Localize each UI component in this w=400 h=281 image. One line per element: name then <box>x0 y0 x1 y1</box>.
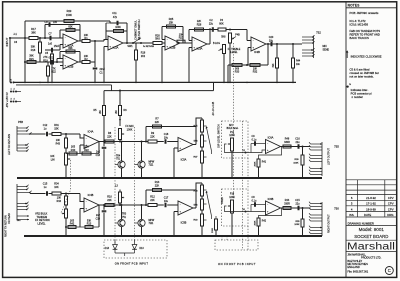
capacitor C8b 0.1u <box>251 204 266 206</box>
wire IC4A output <box>99 141 148 143</box>
resistor R11 22K feedback <box>146 189 196 191</box>
svg-text:CPV: CPV <box>388 202 394 206</box>
svg-text:7111: 7111 <box>149 165 154 167</box>
svg-text:IC5B: IC5B <box>181 221 187 225</box>
svg-text:7111: 7111 <box>149 223 154 225</box>
svg-text:R21: R21 <box>29 58 34 61</box>
wire diode link <box>115 252 135 254</box>
resistor R43b 330R <box>283 207 291 210</box>
svg-text:TANDEM: TANDEM <box>37 215 48 219</box>
svg-text:-: - <box>267 203 268 207</box>
svg-text:22nF: 22nF <box>100 68 106 71</box>
resistor R31 15K <box>49 133 53 135</box>
svg-text:200K: 200K <box>254 220 256 225</box>
resistor R17 38K <box>29 37 38 40</box>
resistor R33 3K9 <box>228 64 268 66</box>
resistor R22 27K <box>47 66 50 76</box>
tandem link dashed <box>61 160 71 213</box>
resistor R28 12K feedback <box>189 29 210 31</box>
svg-text:PCB: JMP39C onwards: PCB: JMP39C onwards <box>350 11 380 15</box>
front pcb dashed box left <box>104 240 167 258</box>
svg-text:15K: 15K <box>169 22 174 25</box>
svg-text:not on later models.: not on later models. <box>350 75 374 79</box>
svg-text:-: - <box>65 57 66 61</box>
resistor R24 100K feedback <box>106 30 127 32</box>
pot P4A B LOG <box>223 45 226 54</box>
svg-text:ON FRONT PCB INPUT: ON FRONT PCB INPUT <box>218 262 256 266</box>
op-amp IC3A <box>192 37 207 51</box>
svg-text:DRN.: DRN. <box>387 213 394 217</box>
svg-text:R27: R27 <box>179 36 184 39</box>
op-amp IC1A <box>63 34 78 48</box>
svg-text:47p: 47p <box>113 16 118 19</box>
resistor R30 39K <box>276 58 279 68</box>
svg-text:732: 732 <box>316 31 321 35</box>
resistor R25 15K feedback <box>162 26 183 28</box>
svg-text:R22: R22 <box>84 149 89 152</box>
wire to IC3B <box>226 29 247 31</box>
svg-text:735: 735 <box>334 145 339 149</box>
pot P5A fx mix <box>119 129 122 140</box>
resistor R5 2M <box>103 91 105 106</box>
svg-text:RIGHT OUTPUT: RIGHT OUTPUT <box>328 214 331 233</box>
op-amp IC6B <box>266 201 281 215</box>
svg-text:C: C <box>388 268 391 273</box>
op-amp IC5B <box>178 201 193 215</box>
switch SW2B arrow <box>204 189 207 191</box>
capacitor C15 1u <box>46 191 48 196</box>
wire R31 to IC4A <box>61 133 80 135</box>
svg-text:Model: 9001: Model: 9001 <box>359 227 385 232</box>
svg-text:O/P LEVEL SWITCH: O/P LEVEL SWITCH <box>217 124 221 148</box>
svg-text:IC2A: IC2A <box>113 45 119 49</box>
svg-text:Indicates inter-: Indicates inter- <box>351 88 369 92</box>
output level attenuator left <box>196 118 202 145</box>
op-amp IC2B <box>162 42 165 44</box>
op-amp IC5A <box>178 138 193 152</box>
svg-text:82K: 82K <box>68 25 73 28</box>
resistor R55 100K <box>302 208 304 219</box>
wire input to R17 <box>10 37 29 39</box>
svg-text:File: 9001SKT.001: File: 9001SKT.001 <box>347 270 368 274</box>
svg-text:17-1-92: 17-1-92 <box>366 202 376 206</box>
svg-text:LEFT FX RETURN: LEFT FX RETURN <box>8 134 11 155</box>
svg-text:crossed on JMP39B but: crossed on JMP39B but <box>350 71 379 75</box>
svg-text:100K: 100K <box>115 26 121 29</box>
svg-text:IC4A: IC4A <box>88 130 94 134</box>
svg-text:n number: n number <box>352 95 363 99</box>
bias wire <box>104 90 214 92</box>
svg-text:D14: D14 <box>105 248 110 250</box>
power pins <box>10 81 12 83</box>
svg-text:ON FRONT PCB INPUT: ON FRONT PCB INPUT <box>115 262 149 266</box>
svg-text:CABINET EMUL: CABINET EMUL <box>133 20 137 40</box>
resistor R23 150K <box>64 20 74 23</box>
pot VR1 10K LIN <box>65 153 68 165</box>
svg-text:C13: C13 <box>96 154 101 157</box>
svg-text:R41: R41 <box>262 162 267 164</box>
capacitor C14 2u2 <box>103 205 105 210</box>
tandem gang dashed P4 to MV <box>233 43 235 136</box>
capacitor C15b 22u <box>297 206 299 211</box>
op-amp IC4B <box>84 198 99 212</box>
svg-text:2M: 2M <box>100 111 102 114</box>
svg-text:10K: 10K <box>54 186 59 189</box>
capacitor C17 10u <box>164 203 166 208</box>
svg-text:0.01: 0.01 <box>49 57 54 60</box>
resistor R9 22K <box>148 140 157 143</box>
svg-text:DATE: DATE <box>364 213 371 217</box>
svg-text:R18: R18 <box>31 49 36 52</box>
resistor R41 200K feedback <box>259 147 282 160</box>
svg-text:-: - <box>194 39 195 43</box>
resistor R27 10K <box>180 42 192 44</box>
svg-text:IC3B: IC3B <box>254 50 260 54</box>
svg-text:22u: 22u <box>296 203 301 206</box>
resistor R12 22K <box>148 204 157 207</box>
svg-text:0.1u: 0.1u <box>252 200 257 203</box>
wire IC3A output up <box>207 43 210 45</box>
resistor R39 100K <box>302 147 304 156</box>
capacitor C11 47p feedback <box>110 22 127 24</box>
svg-text:MV: MV <box>229 124 233 127</box>
bottom ground bus <box>24 235 322 237</box>
svg-text:-20 -10 +4 dB: -20 -10 +4 dB <box>213 101 215 116</box>
capacitor C2 22u <box>210 29 218 31</box>
0V rail <box>14 81 297 83</box>
wire IC1A output <box>90 40 104 42</box>
svg-text:IC6B: IC6B <box>268 197 274 201</box>
svg-text:R44: R44 <box>296 61 301 63</box>
svg-text:730: 730 <box>334 207 339 211</box>
op-amp IC2A <box>108 36 123 50</box>
pot P4B 5K6 <box>229 33 232 43</box>
wire jack to C12 <box>30 133 46 135</box>
feedback wire R23 <box>25 20 110 22</box>
jack P5D <box>16 184 18 220</box>
svg-text:C14: C14 <box>96 218 101 221</box>
resistor R42 1K5 <box>68 226 76 229</box>
MV dashed box left <box>222 121 249 158</box>
svg-text:FILTER SWITCH: FILTER SWITCH <box>137 20 141 40</box>
capacitor C12 1u <box>46 132 48 137</box>
svg-text:-: - <box>267 141 268 145</box>
svg-text:-: - <box>65 36 66 40</box>
svg-text:IC2B: IC2B <box>170 45 176 49</box>
svg-text:LEFT OUTPUT: LEFT OUTPUT <box>328 147 331 165</box>
resistor R1 10K <box>78 40 82 42</box>
svg-text:5K6: 5K6 <box>221 35 226 38</box>
svg-text:2K2: 2K2 <box>141 55 146 58</box>
op-amp IC6A <box>266 140 281 154</box>
svg-text:P5B: P5B <box>18 120 23 124</box>
svg-text:15nF: 15nF <box>54 45 60 48</box>
svg-text:IC5A: IC5A <box>181 158 187 162</box>
svg-text:INDICATES CLOCKWISE: INDICATES CLOCKWISE <box>351 55 382 59</box>
resistor R22b 15K <box>82 152 91 155</box>
svg-text:80K: 80K <box>219 23 224 26</box>
svg-text:D13: D13 <box>140 248 145 250</box>
svg-text:Fx RETURN: Fx RETURN <box>143 46 155 48</box>
svg-text:R44: R44 <box>57 200 62 203</box>
svg-text:-: - <box>86 200 87 204</box>
wire IC3A plus input ground <box>189 47 192 49</box>
svg-text:5K6: 5K6 <box>155 38 160 41</box>
svg-text:LEVEL: LEVEL <box>230 52 238 54</box>
svg-text:120K: 120K <box>229 134 235 137</box>
capacitor C18 10u <box>164 139 166 144</box>
resistor 82K IC1B feedback <box>60 51 80 53</box>
svg-text:R40: R40 <box>71 149 76 152</box>
transistor TR6 <box>141 205 143 219</box>
svg-text:330R: 330R <box>284 141 290 144</box>
svg-text:IC1-4: TL072: IC1-4: TL072 <box>350 19 366 23</box>
svg-text:R42: R42 <box>70 223 75 226</box>
resistor R42b 200K feedback <box>259 208 282 218</box>
second rail <box>16 84 112 86</box>
front pcb dashed box right <box>215 240 258 250</box>
resistor R2 10K <box>78 61 82 63</box>
svg-text:R13: R13 <box>87 223 92 226</box>
wire IC1A plus input <box>60 44 63 46</box>
svg-text:TR3: TR3 <box>122 214 127 216</box>
svg-text:22u: 22u <box>209 23 214 26</box>
svg-text:120K: 120K <box>229 196 235 199</box>
svg-text:R33: R33 <box>235 71 240 74</box>
resistor R34 10K <box>49 193 53 195</box>
resistor R19b 2K2 <box>135 50 138 60</box>
pot VR2 10K <box>65 209 68 218</box>
wire IC6B output <box>281 207 311 209</box>
svg-text:ISS.: ISS. <box>349 213 355 217</box>
capacitor C20 10u <box>270 42 272 47</box>
svg-text:2M: 2M <box>116 111 118 114</box>
svg-text:-: - <box>180 139 181 143</box>
svg-text:LEVEL: LEVEL <box>38 222 47 226</box>
svg-text:MPW: MPW <box>149 220 155 222</box>
wire IC3B output <box>266 43 300 45</box>
capacitor C1 22nF <box>94 62 96 67</box>
svg-text:82K: 82K <box>68 47 73 50</box>
svg-text:22K: 22K <box>107 199 112 202</box>
svg-text:38K: 38K <box>31 30 36 34</box>
svg-text:21-8-92: 21-8-92 <box>366 196 376 200</box>
svg-text:CPV: CPV <box>388 196 394 200</box>
svg-text:J-1: J-1 <box>13 32 17 36</box>
resistor R44 <box>292 58 295 68</box>
wire IC4B output <box>99 204 148 206</box>
svg-text:SOCKET BOARD: SOCKET BOARD <box>354 234 388 239</box>
svg-text:100K: 100K <box>294 224 300 226</box>
svg-text:F&B ON TANDEM POTS: F&B ON TANDEM POTS <box>350 29 381 33</box>
resistor R43 10K <box>65 134 67 138</box>
svg-text:REFER TO FRONT AND: REFER TO FRONT AND <box>350 32 380 36</box>
svg-text:0.1u: 0.1u <box>252 139 257 142</box>
dashed gang lines left <box>114 127 116 244</box>
svg-text:SEND: SEND <box>323 48 330 51</box>
resistor 82K IC1A feedback <box>60 29 80 31</box>
svg-text:INPUT: INPUT <box>5 37 9 46</box>
wire MV wiper to C9 <box>225 144 266 153</box>
svg-text:22K: 22K <box>150 135 155 138</box>
jack switch arrows <box>17 215 29 217</box>
pot P4 80K <box>218 28 226 31</box>
capacitor C13 2u2 <box>103 142 105 147</box>
capacitor 0.01 C10 <box>51 60 53 65</box>
wire R34 to IC4B <box>61 193 80 195</box>
op-amp IC1B <box>63 55 78 69</box>
svg-text:PCB connector pi: PCB connector pi <box>351 91 372 95</box>
wire left vertical rail <box>24 21 26 82</box>
resistor R21 39K <box>27 61 36 64</box>
svg-text:39K: 39K <box>273 63 275 68</box>
svg-text:-: - <box>180 203 181 207</box>
svg-text:-15V +15V 0V: -15V +15V 0V <box>6 92 9 108</box>
wire IC6A output <box>281 146 311 148</box>
wire R17 to IC1A <box>38 37 63 39</box>
svg-text:10u: 10u <box>269 40 274 43</box>
wire IC1B output <box>90 61 95 63</box>
resistor R48 330R <box>283 145 291 148</box>
svg-text:C5 & 6 are fitted: C5 & 6 are fitted <box>350 68 370 72</box>
svg-text:R42: R42 <box>262 221 267 223</box>
svg-text:100K: 100K <box>127 128 133 131</box>
svg-text:IC6A: IC6A <box>268 136 274 140</box>
svg-text:1n5: 1n5 <box>48 43 53 46</box>
svg-text:LIN: LIN <box>51 158 55 161</box>
resistor R20 5K6 <box>153 42 162 45</box>
resistor 200K switch <box>215 219 218 230</box>
svg-text:18-9-89: 18-9-89 <box>366 207 376 211</box>
svg-text:IC1B: IC1B <box>68 64 74 68</box>
capacitor C16 22u <box>297 144 299 149</box>
wire input ground drop <box>9 38 11 82</box>
svg-text:IC3A: IC3A <box>197 46 203 50</box>
copyright symbol <box>385 267 393 275</box>
note clockwise arrow <box>346 51 348 58</box>
note inter-PCB connector <box>346 85 348 87</box>
svg-text:R22: R22 <box>51 71 56 74</box>
svg-text:NOTES: NOTES <box>348 3 360 7</box>
svg-text:10u: 10u <box>164 200 169 203</box>
svg-text:MPW: MPW <box>149 161 155 163</box>
svg-text:C11: C11 <box>112 12 117 15</box>
svg-text:R23: R23 <box>67 9 72 13</box>
diode D14 <box>114 240 116 245</box>
svg-text:22K: 22K <box>155 121 160 124</box>
MV dashed box right <box>222 189 249 226</box>
svg-text:-: - <box>167 38 168 42</box>
wire channel B <box>25 61 63 63</box>
tandem gang dashed MV column <box>242 121 244 250</box>
input terminal J-1 <box>9 37 11 39</box>
svg-text:150K: 150K <box>66 13 72 17</box>
svg-text:SW1: SW1 <box>127 45 133 48</box>
resistor R8 22K <box>105 140 114 143</box>
svg-text:FX TREBLE: FX TREBLE <box>228 49 241 51</box>
resistor R6 2M <box>119 91 121 106</box>
resistor R18 39K <box>39 42 42 53</box>
svg-text:22K: 22K <box>155 185 160 188</box>
feedback wire IC4B <box>66 226 99 228</box>
clockwise arrow marker P5A <box>119 119 121 121</box>
svg-text:100K: 100K <box>293 162 299 164</box>
switch SW2A arrow <box>204 125 207 127</box>
svg-text:CPV: CPV <box>388 207 394 211</box>
svg-text:B LOG: B LOG <box>213 43 220 45</box>
capacitor C7 1n5 <box>49 36 51 41</box>
wire IC2A output / SW1 <box>123 42 146 44</box>
op-amp IC3B <box>251 37 266 51</box>
resistor R19 27K <box>51 54 54 64</box>
capacitor C5 15nF <box>45 49 60 51</box>
svg-text:10u: 10u <box>164 137 169 140</box>
revision table <box>346 179 397 181</box>
svg-text:22u: 22u <box>296 141 301 144</box>
svg-text:IC5,6: MC1458: IC5,6: MC1458 <box>350 23 369 27</box>
svg-text:22K: 22K <box>150 199 155 202</box>
svg-text:TR4: TR4 <box>116 155 121 157</box>
diode D13 <box>134 240 136 245</box>
svg-text:R32: R32 <box>253 71 258 74</box>
resistor R7 22K feedback <box>146 126 196 128</box>
svg-text:1n5: 1n5 <box>53 21 58 24</box>
resistor R13 53K <box>85 226 93 229</box>
svg-text:200K: 200K <box>254 161 256 166</box>
wire IC5B output <box>193 207 196 209</box>
svg-text:DRAWING NUMBER: DRAWING NUMBER <box>348 222 374 226</box>
output level attenuator right <box>196 183 202 208</box>
svg-text:ENGLAND: ENGLAND <box>347 265 359 269</box>
svg-text:IC4B: IC4B <box>88 193 94 197</box>
transistor TR5 <box>141 142 143 161</box>
svg-text:R28: R28 <box>197 24 202 27</box>
wire IC5A output <box>193 144 196 146</box>
transistor TR3 <box>121 205 123 219</box>
svg-text:PRODUCTS LTD.: PRODUCTS LTD. <box>361 256 382 260</box>
svg-text:OR HEAD: OR HEAD <box>8 213 11 224</box>
switch SW1 contact <box>133 38 141 43</box>
svg-text:-: - <box>110 38 111 42</box>
svg-text:VR2 BULK: VR2 BULK <box>35 211 48 215</box>
capacitor C8 1n5 feedback <box>45 24 80 26</box>
transistor TR4 <box>121 142 123 161</box>
mid ground bus <box>17 177 322 179</box>
svg-text:P4B: P4B <box>235 33 240 36</box>
svg-text:200K: 200K <box>212 227 214 233</box>
resistor R10 22K <box>105 204 114 207</box>
wire jack to C15 <box>30 193 46 195</box>
svg-text:R43: R43 <box>56 143 61 146</box>
svg-text:15K: 15K <box>54 128 59 131</box>
op-amp IC4A <box>84 135 99 149</box>
wire into IC2A <box>104 40 108 42</box>
resistor R44b 10K <box>65 194 67 197</box>
svg-text:Marshall: Marshall <box>347 241 395 252</box>
resistor R32 10K <box>250 64 260 67</box>
wire MV2 wiper to C8 <box>225 206 266 212</box>
svg-text:FX RETURN: FX RETURN <box>35 218 50 222</box>
resistor R40 1K5 <box>69 152 77 155</box>
svg-text:BACK TRACKS: BACK TRACKS <box>350 36 370 40</box>
svg-text:330R: 330R <box>284 203 290 206</box>
feedback wire IC4A <box>66 153 99 155</box>
svg-text:-: - <box>253 39 254 43</box>
svg-text:BULK tand-: BULK tand- <box>227 127 239 130</box>
svg-text:-: - <box>86 136 87 140</box>
capacitor C9 0.1u <box>251 143 266 145</box>
svg-text:22K: 22K <box>107 135 112 138</box>
